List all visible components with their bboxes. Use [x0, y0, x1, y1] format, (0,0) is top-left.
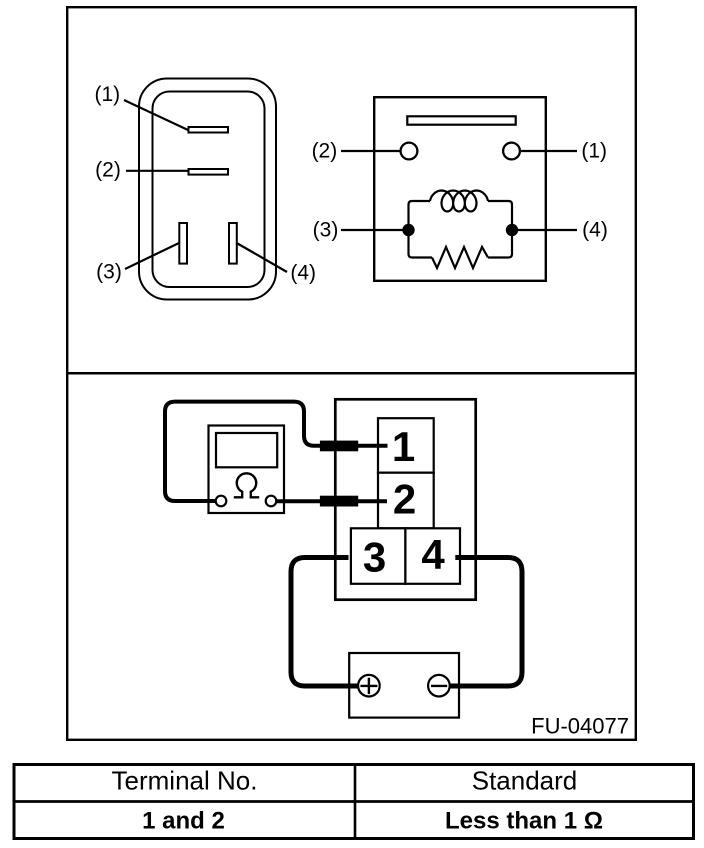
svg-text:Standard: Standard — [472, 766, 578, 796]
svg-text:1: 1 — [392, 423, 415, 470]
figure frame — [67, 7, 636, 740]
probe tip 2 point — [357, 499, 387, 503]
terminal box 4 — [405, 528, 460, 584]
connector outer shell — [139, 79, 276, 300]
leader line (4) to slot 4 — [238, 244, 288, 273]
table row divider — [13, 800, 694, 803]
probe tip 1 point — [357, 444, 388, 448]
coil L1 — [430, 191, 488, 212]
relay pin circle (1) — [503, 143, 520, 160]
svg-text:(3): (3) — [313, 219, 339, 242]
svg-text:4: 4 — [421, 531, 445, 578]
relay box — [374, 97, 546, 281]
leader line (1) to slot 1 — [124, 100, 188, 130]
svg-text:(2): (2) — [312, 140, 338, 163]
terminal box 3 — [351, 528, 406, 584]
ohmmeter display — [216, 433, 277, 467]
relay top bar — [407, 116, 515, 124]
resistor branch wire right — [488, 230, 512, 258]
terminal box 2 — [378, 473, 434, 529]
leader line (3) to slot 3 — [125, 243, 179, 269]
resistor branch wire left — [409, 230, 433, 258]
terminal slot 2 — [189, 169, 229, 175]
terminal slot 4 — [229, 223, 237, 264]
leader line (2) relay — [341, 150, 401, 152]
leader line (4) relay — [516, 229, 577, 231]
relay pin circle (2) — [401, 143, 418, 160]
leader line (2) to slot 2 — [126, 170, 188, 172]
ohmmeter terminal left — [216, 496, 227, 507]
probe tip 2 — [320, 496, 358, 507]
test lead wire from left terminal to probe 1 — [165, 402, 320, 501]
svg-text:(4): (4) — [582, 219, 608, 242]
coil branch wire left — [409, 201, 431, 230]
leader line (1) relay — [520, 150, 577, 152]
terminal box 1 — [378, 418, 434, 473]
node (4) — [506, 224, 518, 236]
battery wire from terminal 3 to positive — [291, 558, 358, 687]
section divider line — [66, 372, 637, 375]
terminal slot 1 — [189, 127, 229, 133]
svg-text:FU-04077: FU-04077 — [531, 714, 629, 739]
table outer border — [14, 765, 694, 839]
svg-text:(1): (1) — [94, 83, 120, 106]
svg-text:2: 2 — [393, 475, 416, 522]
relay body outline bottom — [335, 399, 475, 599]
ohmmeter terminal right — [266, 496, 277, 507]
battery wire from terminal 4 to negative — [451, 558, 523, 687]
svg-text:Less than 1 Ω: Less than 1 Ω — [445, 807, 603, 834]
ohmmeter body — [209, 426, 285, 514]
terminal slot 3 — [179, 223, 187, 264]
probe tip 1 — [320, 441, 358, 452]
svg-text:1 and 2: 1 and 2 — [142, 807, 225, 834]
node (3) — [402, 224, 414, 236]
svg-text:(1): (1) — [581, 140, 607, 163]
svg-text:(4): (4) — [290, 262, 316, 285]
leader line (3) relay — [341, 229, 404, 231]
svg-text:Terminal No.: Terminal No. — [112, 766, 258, 796]
battery positive terminal — [358, 675, 380, 697]
svg-text:(3): (3) — [96, 261, 122, 284]
coil branch wire right — [488, 201, 512, 230]
test lead wire from right terminal to probe 2 — [277, 499, 321, 503]
battery box — [349, 653, 459, 718]
table column divider — [354, 763, 357, 840]
ohmmeter omega symbol — [234, 473, 259, 497]
battery negative terminal — [428, 675, 450, 697]
svg-text:3: 3 — [363, 533, 386, 580]
svg-text:(2): (2) — [95, 159, 121, 182]
resistor R1 zigzag — [432, 247, 488, 268]
connector inner shell — [153, 92, 265, 288]
